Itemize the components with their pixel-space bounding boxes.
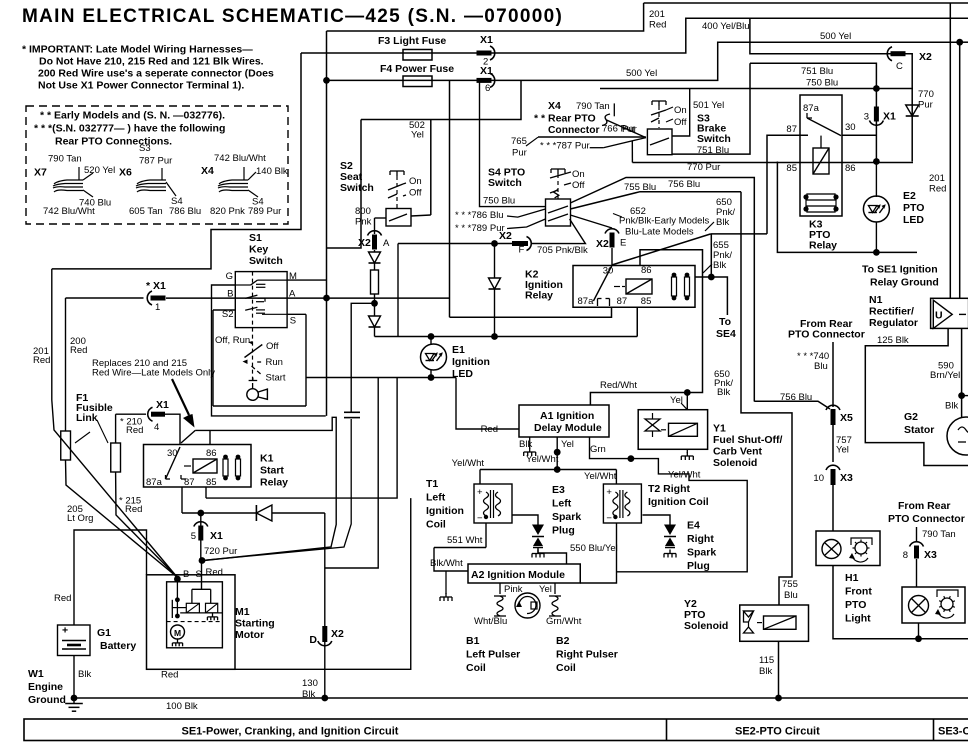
svg-text:A1 Ignition: A1 Ignition — [540, 410, 594, 422]
svg-text:E4: E4 — [687, 520, 700, 532]
svg-text:Red: Red — [161, 670, 178, 681]
svg-text:X2: X2 — [499, 230, 512, 242]
svg-text:Blk: Blk — [716, 217, 729, 228]
svg-text:820 Pnk: 820 Pnk — [210, 206, 245, 217]
svg-text:Pur: Pur — [918, 100, 933, 111]
svg-text:* * *(S.N. 032777— ) have the: * * *(S.N. 032777— ) have the following — [34, 123, 225, 135]
svg-text:To: To — [719, 316, 731, 328]
svg-text:Yel/Wht: Yel/Wht — [526, 454, 559, 465]
svg-text:Switch: Switch — [488, 177, 522, 189]
svg-text:F4 Power Fuse: F4 Power Fuse — [380, 63, 454, 75]
svg-text:Motor: Motor — [235, 629, 264, 641]
svg-text:742 Blu/Wht: 742 Blu/Wht — [214, 153, 266, 164]
svg-text:4: 4 — [154, 422, 159, 433]
svg-text:Plug: Plug — [687, 560, 710, 572]
svg-text:201: 201 — [649, 9, 665, 20]
svg-text:Carb Vent: Carb Vent — [713, 446, 763, 458]
svg-text:S3: S3 — [139, 143, 151, 154]
svg-text:B: B — [183, 569, 189, 580]
svg-text:K1: K1 — [260, 453, 274, 465]
svg-text:Blk: Blk — [713, 260, 726, 271]
svg-text:Solenoid: Solenoid — [713, 457, 757, 469]
svg-text:520 Yel: 520 Yel — [84, 165, 115, 176]
svg-text:Pnk: Pnk — [355, 217, 372, 228]
svg-text:Blk: Blk — [717, 387, 730, 398]
svg-text:* * *786 Blu: * * *786 Blu — [455, 210, 504, 221]
svg-text:551 Wht: 551 Wht — [447, 535, 483, 546]
svg-text:M1: M1 — [235, 606, 250, 618]
svg-text:Battery: Battery — [100, 640, 136, 652]
svg-text:Relay: Relay — [809, 240, 837, 252]
svg-text:Blu-Late Models: Blu-Late Models — [625, 227, 694, 238]
svg-text:Connector: Connector — [548, 125, 600, 136]
svg-text:* * Early Models and (S. N.: * * Early Models and (S. N. —032776). — [40, 110, 225, 122]
svg-text:790 Tan: 790 Tan — [576, 101, 610, 112]
svg-text:Coil: Coil — [466, 662, 486, 674]
svg-text:Starting: Starting — [235, 618, 275, 630]
svg-text:MAIN ELECTRICAL SCHEMATIC—425: MAIN ELECTRICAL SCHEMATIC—425 (S.N. —070… — [22, 6, 563, 27]
svg-text:Delay Module: Delay Module — [534, 422, 602, 434]
svg-text:Coil: Coil — [556, 662, 576, 674]
svg-text:800: 800 — [355, 206, 371, 217]
svg-text:* IMPORTANT: Late Model Wiring: * IMPORTANT: Late Model Wiring Harnesses… — [22, 44, 253, 56]
svg-text:G2: G2 — [904, 411, 918, 423]
svg-text:Start: Start — [260, 465, 284, 477]
svg-text:85: 85 — [786, 163, 797, 174]
svg-text:742 Blu/Wht: 742 Blu/Wht — [43, 206, 95, 217]
svg-text:786 Blu: 786 Blu — [169, 206, 201, 217]
svg-text:8: 8 — [903, 550, 908, 561]
svg-text:Relay: Relay — [260, 477, 288, 489]
svg-text:140 Blk: 140 Blk — [256, 166, 288, 177]
svg-text:SE3-C: SE3-C — [938, 726, 968, 738]
svg-text:Blk: Blk — [945, 401, 958, 412]
svg-text:Left: Left — [552, 498, 572, 510]
svg-text:87a: 87a — [146, 477, 163, 488]
svg-text:765: 765 — [511, 136, 527, 147]
svg-text:Blk/Wht: Blk/Wht — [430, 558, 463, 569]
svg-text:Blk: Blk — [519, 439, 532, 450]
svg-text:Ground: Ground — [28, 694, 66, 706]
svg-text:770 Pur: 770 Pur — [687, 162, 720, 173]
svg-text:F: F — [519, 245, 525, 256]
svg-text:Red/Wht: Red/Wht — [600, 380, 637, 391]
svg-text:F3 Light Fuse: F3 Light Fuse — [378, 35, 446, 47]
svg-text:X7: X7 — [34, 167, 47, 179]
svg-text:X3: X3 — [924, 549, 937, 561]
svg-text:Rectifier/: Rectifier/ — [869, 306, 914, 318]
svg-text:87a: 87a — [578, 296, 595, 307]
svg-text:C: C — [896, 61, 903, 72]
svg-text:X1: X1 — [480, 34, 493, 46]
svg-text:S: S — [290, 316, 296, 327]
svg-text:X1: X1 — [156, 399, 169, 411]
svg-text:Pur: Pur — [512, 148, 527, 159]
svg-text:Yel/Wht: Yel/Wht — [668, 470, 701, 481]
svg-text:LED: LED — [452, 368, 473, 380]
svg-text:Blk: Blk — [759, 666, 772, 677]
svg-text:LED: LED — [903, 214, 924, 226]
svg-text:Coil: Coil — [426, 519, 446, 531]
svg-text:Solenoid: Solenoid — [684, 620, 728, 632]
svg-text:Off, Run: Off, Run — [215, 335, 250, 346]
svg-text:Plug: Plug — [552, 525, 575, 537]
svg-text:T2 Right: T2 Right — [648, 483, 690, 495]
svg-text:Red: Red — [481, 424, 498, 435]
svg-text:SE1-Power, Cranking, and Ignit: SE1-Power, Cranking, and Ignition Circui… — [182, 726, 399, 738]
svg-text:−: − — [606, 513, 612, 524]
svg-text:87a: 87a — [803, 103, 820, 114]
svg-text:Grn/Wht: Grn/Wht — [546, 616, 582, 627]
svg-text:Red: Red — [54, 593, 71, 604]
svg-text:X3: X3 — [840, 472, 853, 484]
svg-text:200 Red Wire use's a seperate: 200 Red Wire use's a seperate connector … — [38, 68, 274, 80]
svg-text:Red: Red — [70, 345, 87, 356]
svg-text:Relay: Relay — [525, 290, 553, 302]
svg-text:400 Yel/Blu: 400 Yel/Blu — [702, 21, 750, 32]
svg-text:756 Blu: 756 Blu — [668, 179, 700, 190]
svg-text:X4: X4 — [201, 165, 214, 177]
svg-text:Key: Key — [249, 244, 268, 256]
svg-text:Spark: Spark — [552, 511, 581, 523]
svg-text:85: 85 — [641, 296, 652, 307]
svg-text:Lt Org: Lt Org — [67, 513, 93, 524]
svg-text:D: D — [309, 634, 317, 646]
svg-text:751 Blu: 751 Blu — [801, 66, 833, 77]
svg-text:Ignition: Ignition — [426, 505, 464, 517]
svg-text:Off: Off — [409, 188, 422, 199]
svg-text:Light: Light — [845, 613, 871, 625]
svg-text:3: 3 — [864, 112, 869, 123]
svg-text:Yel/Wht: Yel/Wht — [452, 458, 485, 469]
svg-text:SE4: SE4 — [716, 328, 736, 340]
svg-text:550 Blu/Yel: 550 Blu/Yel — [570, 543, 618, 554]
svg-text:87: 87 — [786, 124, 797, 135]
svg-text:500 Yel: 500 Yel — [820, 31, 851, 42]
svg-text:5: 5 — [191, 531, 196, 542]
svg-text:N1: N1 — [869, 294, 883, 306]
svg-text:G: G — [226, 271, 233, 282]
svg-text:X1: X1 — [210, 530, 223, 542]
svg-text:Ignition Coil: Ignition Coil — [648, 496, 709, 508]
svg-text:Pnk/Blk-Early Models: Pnk/Blk-Early Models — [619, 216, 710, 227]
svg-text:Rear PTO Connections.: Rear PTO Connections. — [55, 136, 172, 148]
svg-text:Yel: Yel — [836, 445, 849, 456]
svg-text:To SE1 Ignition: To SE1 Ignition — [862, 264, 938, 276]
svg-text:On: On — [572, 169, 585, 180]
svg-text:PTO Connector: PTO Connector — [788, 329, 865, 341]
svg-text:X1: X1 — [883, 111, 896, 123]
svg-text:Blu: Blu — [784, 590, 798, 601]
svg-text:755: 755 — [782, 579, 798, 590]
svg-text:Grn: Grn — [590, 444, 606, 455]
svg-text:Start: Start — [266, 373, 286, 384]
svg-text:* * Rear PTO: * * Rear PTO — [534, 113, 596, 125]
svg-text:125 Blk: 125 Blk — [877, 335, 909, 346]
svg-text:Switch: Switch — [249, 255, 283, 267]
svg-text:* * *787 Pur: * * *787 Pur — [540, 141, 590, 152]
svg-text:On: On — [409, 176, 422, 187]
svg-text:605 Tan: 605 Tan — [129, 206, 163, 217]
svg-text:E2: E2 — [903, 190, 916, 202]
svg-text:Left: Left — [426, 492, 446, 504]
svg-text:A: A — [383, 238, 390, 249]
svg-text:6: 6 — [485, 83, 490, 94]
svg-text:1: 1 — [155, 302, 160, 313]
svg-text:Front: Front — [845, 586, 872, 598]
svg-text:Right Pulser: Right Pulser — [556, 649, 618, 661]
svg-text:Regulator: Regulator — [869, 317, 918, 329]
svg-text:T1: T1 — [426, 478, 438, 490]
svg-text:115: 115 — [759, 655, 774, 666]
svg-text:705 Pnk/Blk: 705 Pnk/Blk — [537, 245, 588, 256]
svg-text:750 Blu: 750 Blu — [483, 196, 515, 207]
svg-text:Switch: Switch — [340, 182, 374, 194]
svg-text:Yel: Yel — [411, 130, 424, 141]
svg-text:Ignition: Ignition — [452, 356, 490, 368]
svg-text:789 Pur: 789 Pur — [248, 206, 281, 217]
svg-text:X6: X6 — [119, 167, 132, 179]
svg-text:X5: X5 — [840, 412, 853, 424]
svg-text:86: 86 — [206, 448, 217, 459]
svg-text:+: + — [477, 487, 483, 498]
svg-text:770: 770 — [918, 89, 934, 100]
svg-text:* X1: * X1 — [146, 280, 166, 292]
svg-text:X1: X1 — [480, 65, 493, 77]
svg-text:Yel: Yel — [670, 395, 683, 406]
svg-text:Switch: Switch — [697, 133, 731, 145]
svg-text:790 Tan: 790 Tan — [48, 154, 82, 165]
svg-text:100 Blk: 100 Blk — [166, 701, 198, 712]
svg-text:Stator: Stator — [904, 424, 934, 436]
svg-text:720 Pur: 720 Pur — [204, 546, 237, 557]
svg-text:Brn/Yel: Brn/Yel — [930, 370, 960, 381]
svg-text:Red: Red — [126, 425, 143, 436]
svg-text:500 Yel: 500 Yel — [626, 68, 657, 79]
svg-text:B1: B1 — [466, 635, 480, 647]
svg-text:750 Blu: 750 Blu — [806, 78, 838, 89]
svg-text:Red: Red — [929, 184, 946, 195]
svg-text:M: M — [174, 628, 181, 638]
svg-text:201: 201 — [929, 173, 945, 184]
svg-text:790 Tan: 790 Tan — [922, 529, 956, 540]
svg-text:G1: G1 — [97, 627, 111, 639]
svg-text:Pink: Pink — [504, 584, 523, 595]
svg-text:Red: Red — [206, 567, 223, 578]
svg-text:87: 87 — [617, 296, 628, 307]
svg-text:Yel: Yel — [539, 584, 552, 595]
svg-text:X4: X4 — [548, 100, 561, 112]
svg-text:PTO: PTO — [903, 202, 924, 214]
svg-text:Red: Red — [33, 355, 50, 366]
svg-text:Right: Right — [687, 533, 714, 545]
svg-text:E: E — [620, 238, 626, 249]
svg-text:W1: W1 — [28, 668, 44, 680]
svg-text:PTO Connector: PTO Connector — [888, 513, 965, 525]
svg-text:Relay Ground: Relay Ground — [870, 277, 939, 289]
svg-text:S1: S1 — [249, 232, 262, 244]
svg-text:Blk: Blk — [302, 689, 315, 700]
svg-text:Blk: Blk — [78, 669, 91, 680]
svg-text:E3: E3 — [552, 484, 565, 496]
svg-text:Red: Red — [649, 20, 666, 31]
svg-text:Wht/Blu: Wht/Blu — [474, 616, 507, 627]
svg-text:Link: Link — [76, 412, 98, 424]
svg-text:86: 86 — [845, 163, 856, 174]
svg-text:Not Use X1 Power Connector Ter: Not Use X1 Power Connector Terminal 1). — [38, 80, 244, 92]
svg-text:E1: E1 — [452, 344, 465, 356]
svg-text:U: U — [935, 310, 943, 322]
svg-text:130: 130 — [302, 678, 318, 689]
svg-text:X2: X2 — [358, 237, 371, 249]
svg-text:B2: B2 — [556, 635, 570, 647]
svg-text:Yel/Wht: Yel/Wht — [584, 471, 617, 482]
svg-text:Do Not Have 210, 215 Red and: Do Not Have 210, 215 Red and 121 Blk Wir… — [39, 56, 264, 68]
svg-text:Y1: Y1 — [713, 423, 726, 435]
svg-text:86: 86 — [641, 265, 652, 276]
svg-text:501 Yel: 501 Yel — [693, 100, 724, 111]
svg-text:Spark: Spark — [687, 547, 716, 559]
svg-text:Off: Off — [572, 180, 585, 191]
svg-text:Blu: Blu — [814, 361, 828, 372]
svg-text:X2: X2 — [331, 628, 344, 640]
svg-text:+: + — [62, 625, 68, 637]
svg-text:30: 30 — [845, 122, 856, 133]
svg-text:From Rear: From Rear — [898, 500, 951, 512]
svg-text:10: 10 — [813, 473, 824, 484]
svg-text:X2: X2 — [596, 238, 609, 250]
svg-text:−: − — [477, 513, 483, 524]
svg-text:+: + — [606, 487, 612, 498]
svg-text:Off: Off — [266, 341, 279, 352]
svg-text:Red: Red — [125, 504, 142, 515]
svg-text:H1: H1 — [845, 572, 859, 584]
svg-text:X2: X2 — [919, 51, 932, 63]
svg-text:Run: Run — [266, 357, 283, 368]
svg-text:Fuel Shut-Off/: Fuel Shut-Off/ — [713, 434, 782, 446]
svg-text:85: 85 — [206, 477, 217, 488]
svg-text:Red Wire—Late Models Only: Red Wire—Late Models Only — [92, 368, 215, 379]
svg-text:Left Pulser: Left Pulser — [466, 649, 520, 661]
svg-text:Yel: Yel — [561, 439, 574, 450]
svg-text:PTO: PTO — [845, 599, 866, 611]
svg-text:On: On — [674, 105, 687, 116]
svg-text:* * *789 Pur: * * *789 Pur — [455, 223, 505, 234]
svg-text:Engine: Engine — [28, 681, 63, 693]
svg-text:787 Pur: 787 Pur — [139, 156, 172, 167]
svg-text:Off: Off — [674, 117, 687, 128]
svg-text:SE2-PTO Circuit: SE2-PTO Circuit — [735, 726, 820, 738]
svg-text:A2 Ignition Module: A2 Ignition Module — [471, 569, 565, 581]
